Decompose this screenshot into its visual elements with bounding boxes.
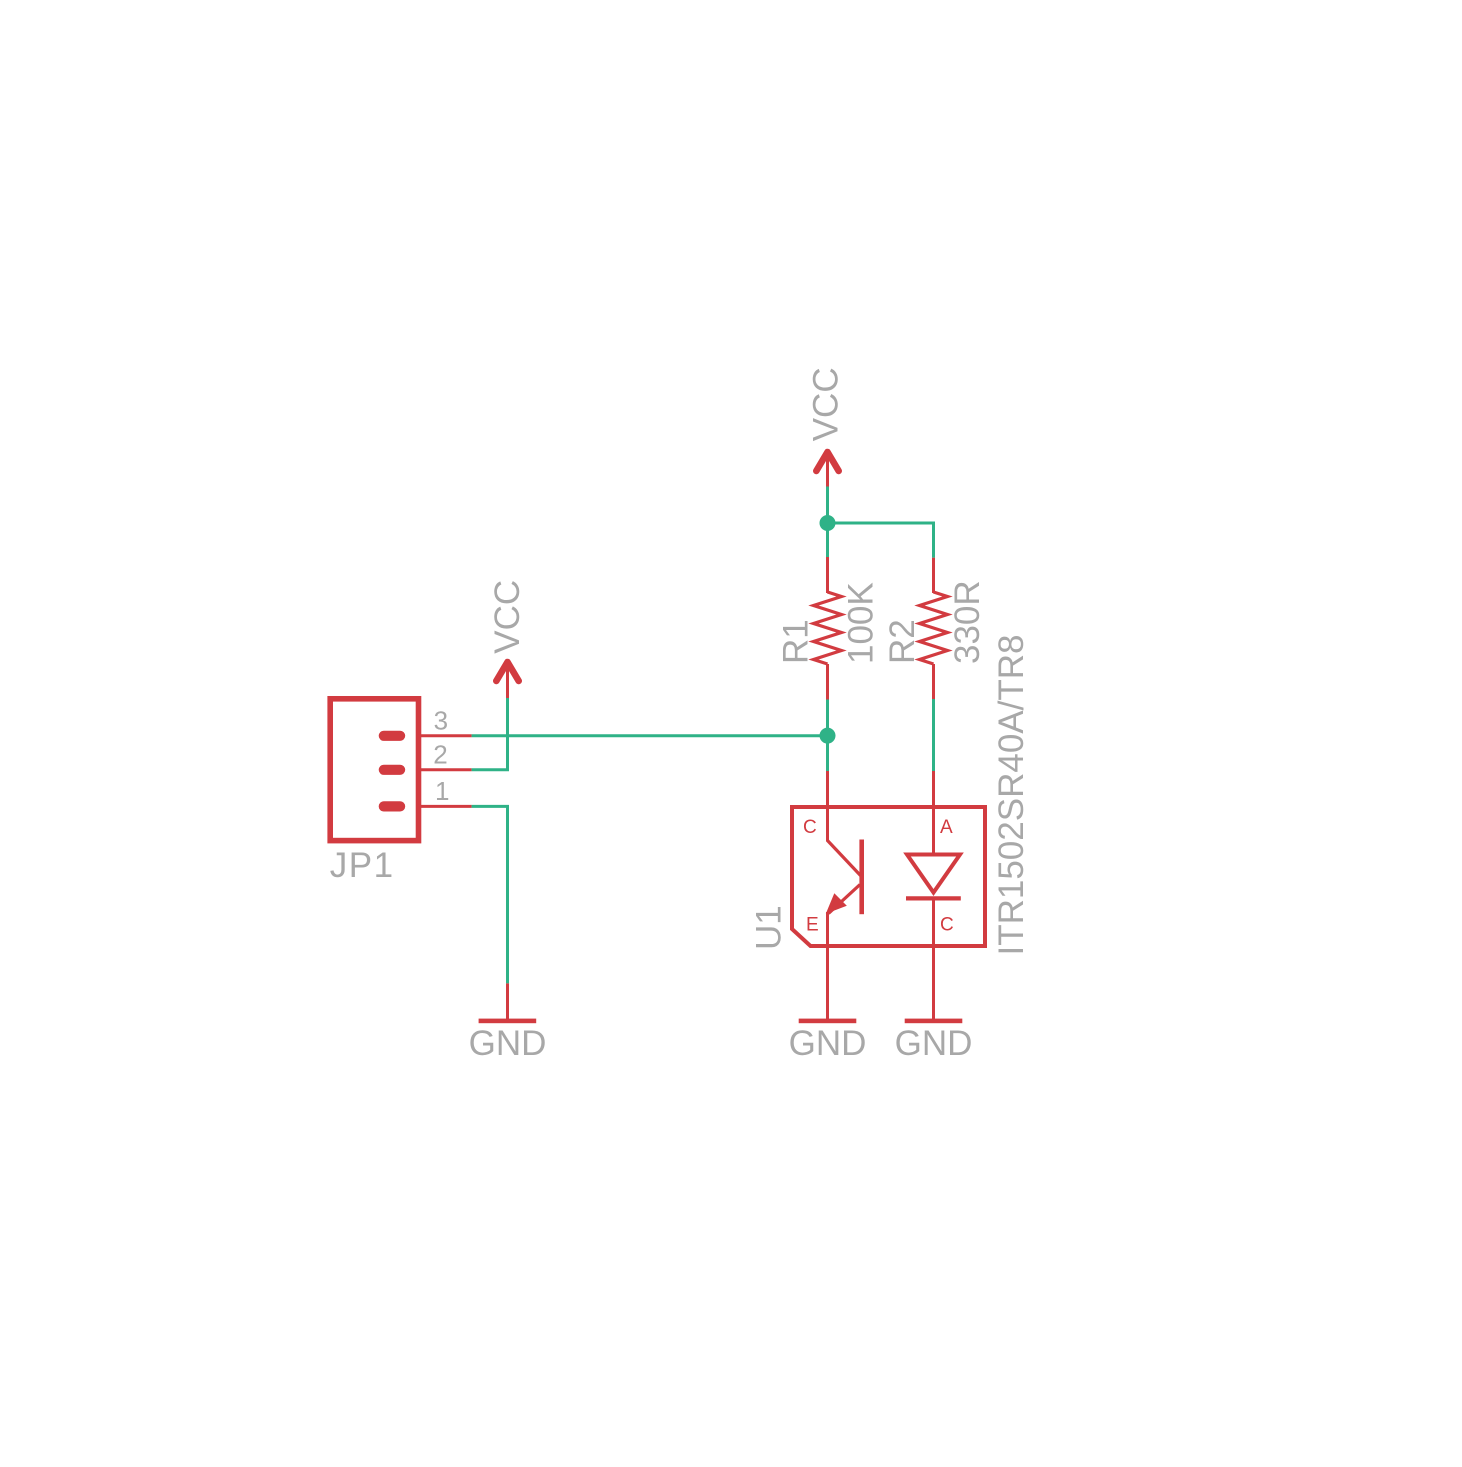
wire net pin3 to node A <box>472 734 828 737</box>
svg-text:330R: 330R <box>948 580 987 664</box>
svg-text:VCC: VCC <box>488 580 527 654</box>
JP1 pin 1 pad <box>384 801 400 811</box>
wire net R2 bottom to U1 anode <box>932 699 935 771</box>
wire net pin1 to GND (left) <box>472 806 508 983</box>
resistor R2 bottom lead <box>932 664 935 699</box>
wire U1 cathode to GND (right) <box>932 898 935 1020</box>
JP1 pin number 2 <box>433 740 447 770</box>
U1 LED cathode bar <box>906 896 961 900</box>
JP1 reference label <box>330 846 395 885</box>
JP1 pin 3 pad <box>384 731 400 741</box>
JP1 pin 1 lead <box>418 805 472 808</box>
JP1 pin number 3 <box>434 706 448 736</box>
JP1 pin 3 lead <box>418 734 472 737</box>
svg-text:JP1: JP1 <box>330 846 395 885</box>
wire U1 emitter to GND (middle) <box>826 912 829 1021</box>
R1 reference label <box>777 619 816 664</box>
resistor R2 top lead <box>932 558 935 593</box>
power symbol VCC (top right) arrow <box>816 452 838 487</box>
svg-text:E: E <box>806 915 819 936</box>
ground symbol GND (right) bar <box>905 1019 963 1024</box>
svg-text:GND: GND <box>469 1024 547 1063</box>
svg-text:C: C <box>940 915 954 936</box>
svg-text:R1: R1 <box>777 619 816 664</box>
U1 pin label C (collector) <box>803 817 817 838</box>
power symbol VCC (left) arrow <box>496 662 518 699</box>
svg-text:GND: GND <box>789 1024 867 1063</box>
U1 LED triangle <box>907 855 960 893</box>
U1 pin label A (anode) <box>940 817 953 838</box>
svg-text:VCC: VCC <box>806 367 845 441</box>
GND label (right) <box>895 1024 973 1063</box>
svg-text:U1: U1 <box>750 905 789 950</box>
GND label (middle) <box>789 1024 867 1063</box>
svg-text:C: C <box>803 817 817 838</box>
R2 value label 330R <box>948 580 987 664</box>
ground symbol GND (middle) bar <box>799 1019 857 1024</box>
R1 value label 100K <box>842 582 881 664</box>
optocoupler U1 body <box>792 807 985 946</box>
svg-text:ITR1502SR40A/TR8: ITR1502SR40A/TR8 <box>992 635 1031 956</box>
svg-text:2: 2 <box>433 740 447 770</box>
svg-text:1: 1 <box>435 776 449 806</box>
JP1 pin 2 lead <box>418 768 472 771</box>
wire net pin2 to VCC (left) <box>472 698 508 770</box>
connector JP1 body <box>330 699 418 841</box>
U1 pin label E (emitter) <box>806 915 819 936</box>
JP1 pin number 1 <box>435 776 449 806</box>
junction node at VCC split <box>820 515 836 531</box>
U1 reference label <box>750 905 789 950</box>
ground symbol GND (left) bar <box>479 1019 537 1024</box>
resistor R1 bottom lead <box>826 664 829 700</box>
VCC label (top right) <box>806 367 845 441</box>
U1 phototransistor <box>826 840 864 915</box>
junction node A on pin3 net <box>820 728 836 744</box>
wire net VCC to R1/R2 tops <box>828 487 934 558</box>
resistor R2 zigzag <box>920 592 948 664</box>
R2 reference label <box>883 619 922 664</box>
svg-text:100K: 100K <box>842 582 881 664</box>
VCC label (left) <box>488 580 527 654</box>
JP1 pin 2 pad <box>384 765 400 775</box>
U1 part number label <box>992 635 1031 956</box>
GND label (left) <box>469 1024 547 1063</box>
ground symbol GND (left) lead <box>506 983 509 1020</box>
resistor R1 top lead <box>826 557 829 593</box>
svg-text:GND: GND <box>895 1024 973 1063</box>
resistor R1 zigzag <box>814 592 842 664</box>
wire net R1 bottom to U1 collector <box>826 700 829 772</box>
svg-text:3: 3 <box>434 706 448 736</box>
U1 LED anode lead <box>932 771 935 856</box>
svg-text:A: A <box>940 817 953 838</box>
U1 collector pin lead <box>826 771 829 842</box>
U1 pin label C (cathode) <box>940 915 954 936</box>
svg-text:R2: R2 <box>883 619 922 664</box>
